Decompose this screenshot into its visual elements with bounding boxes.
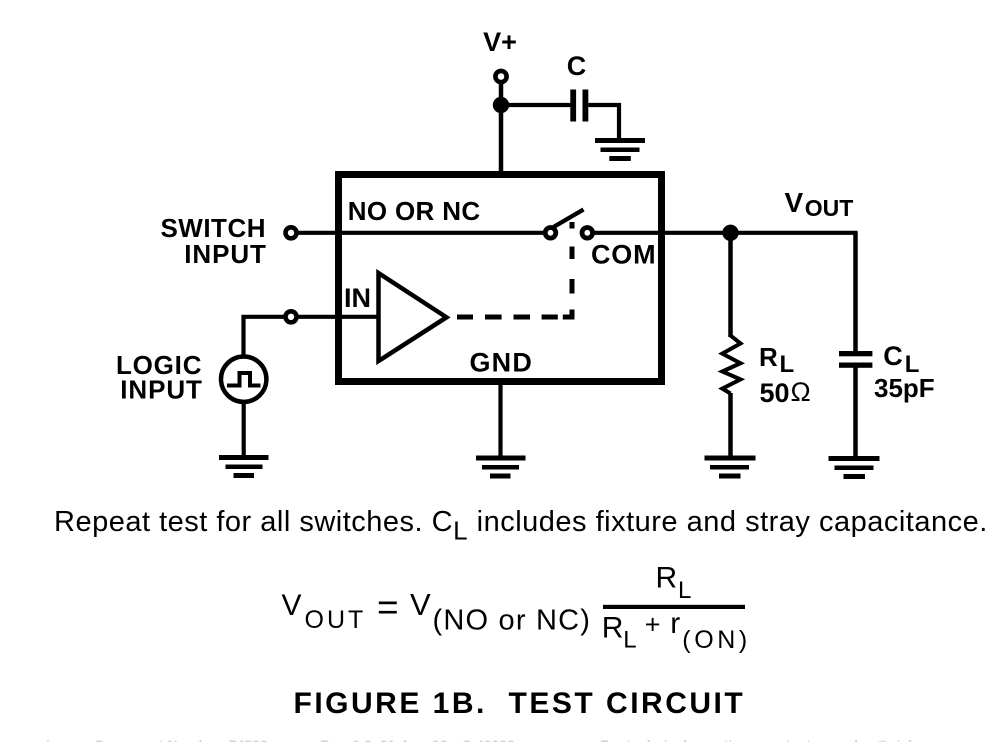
svg-text:Repeat test for all switches.: Repeat test for all switches. CL include… — [54, 506, 988, 546]
label RL 50ohm — [759, 342, 811, 408]
svg-text:R: R — [656, 562, 678, 595]
svg-text:R: R — [602, 612, 624, 645]
resistor RL — [722, 336, 740, 394]
svg-text:R: R — [759, 342, 778, 372]
ground for pulse source — [219, 455, 269, 478]
svg-text:Rev. 1.3, 21-Aug-06: Rev. 1.3, 21-Aug-06 — [320, 737, 448, 742]
dashed control line — [457, 222, 572, 317]
svg-text:(ON): (ON) — [682, 626, 751, 654]
svg-text:(NO or NC): (NO or NC) — [433, 605, 592, 637]
svg-text:V: V — [785, 187, 804, 218]
ground for capacitor C — [595, 138, 645, 161]
ground for capacitor CL — [829, 456, 880, 479]
wire capacitor C to ground — [588, 105, 619, 139]
svg-text:NO OR NC: NO OR NC — [348, 196, 481, 226]
capacitor C — [570, 90, 588, 122]
svg-text:S-40098: S-40098 — [462, 737, 515, 742]
wire GND pin to ground — [498, 383, 502, 456]
capacitor CL — [839, 351, 872, 368]
ground for resistor RL — [705, 456, 756, 479]
label LOGIC INPUT — [116, 350, 203, 405]
terminal switch input — [286, 227, 297, 238]
wire capacitor CL to ground — [853, 368, 858, 457]
svg-text:OUT: OUT — [305, 606, 367, 634]
svg-text:35pF: 35pF — [874, 373, 935, 403]
svg-text:r: r — [670, 607, 680, 640]
svg-text:IN: IN — [344, 283, 371, 313]
wire V+ node to capacitor C — [501, 103, 571, 107]
svg-text:Ω: Ω — [791, 377, 811, 407]
footer fragment — [1, 737, 933, 747]
pulse source V1 — [221, 357, 266, 402]
wire VOUT node to capacitor CL — [853, 233, 858, 352]
svg-text:L: L — [623, 627, 636, 654]
wire logic source to terminal — [244, 317, 286, 355]
wire pulse source to ground — [242, 401, 246, 456]
svg-text:OUT: OUT — [805, 195, 854, 221]
svg-text:=: = — [377, 587, 399, 628]
terminal logic input — [286, 311, 297, 322]
svg-text:V: V — [282, 589, 302, 622]
wire switch input to switch — [297, 231, 543, 235]
svg-text:50: 50 — [760, 378, 790, 408]
svg-text:www.vi: www.vi — [1, 737, 50, 742]
wire VOUT node to resistor RL — [728, 233, 733, 337]
switch S1 — [545, 210, 592, 239]
svg-text:GND: GND — [469, 348, 533, 378]
ground for GND pin — [476, 456, 526, 479]
equation VOUT — [282, 562, 751, 655]
junction VOUT node — [722, 225, 738, 241]
svg-text:C: C — [567, 51, 587, 81]
svg-text:Document Number: 74598: Document Number: 74598 — [95, 737, 268, 742]
node VOUT label — [785, 187, 854, 221]
op-amp buffer — [379, 273, 447, 361]
label SWITCH INPUT — [160, 213, 266, 269]
wire V+ to box — [499, 84, 504, 174]
label CL 35pF — [874, 341, 935, 403]
DUT box U1 — [339, 175, 662, 382]
svg-text:+: + — [645, 610, 661, 640]
svg-text:V+: V+ — [483, 27, 517, 57]
svg-text:L: L — [780, 351, 795, 378]
svg-text:For technical questions contac: For technical questions contact: — [600, 737, 815, 742]
svg-text:L: L — [678, 577, 691, 604]
svg-text:analog@vishay: analog@vishay — [830, 737, 933, 742]
svg-text:INPUT: INPUT — [184, 239, 267, 269]
wire resistor RL to ground — [728, 393, 733, 456]
svg-text:FIGURE 1B. TEST CIRCUIT: FIGURE 1B. TEST CIRCUIT — [294, 687, 746, 720]
svg-text:COM: COM — [591, 240, 656, 270]
svg-text:C: C — [883, 341, 903, 371]
junction V+ node — [493, 97, 509, 113]
terminal V+ — [495, 71, 506, 82]
svg-text:V: V — [410, 587, 431, 622]
svg-text:INPUT: INPUT — [120, 375, 203, 405]
wire IN pin — [297, 315, 378, 319]
wire COM to VOUT node — [593, 231, 858, 235]
